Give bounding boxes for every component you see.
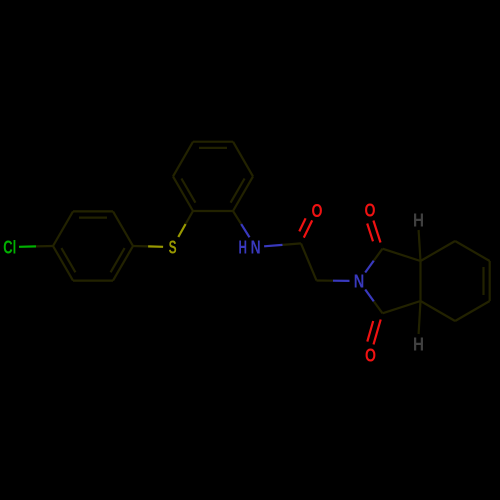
svg-text:S: S: [169, 237, 177, 257]
svg-text:O: O: [312, 201, 323, 221]
svg-text:O: O: [365, 345, 376, 365]
svg-text:H: H: [413, 210, 424, 230]
svg-text:Cl: Cl: [3, 237, 16, 257]
svg-text:H: H: [413, 334, 424, 354]
svg-text:N: N: [251, 237, 261, 257]
svg-text:O: O: [365, 200, 376, 220]
svg-text:H: H: [238, 237, 247, 257]
svg-text:N: N: [354, 271, 365, 291]
